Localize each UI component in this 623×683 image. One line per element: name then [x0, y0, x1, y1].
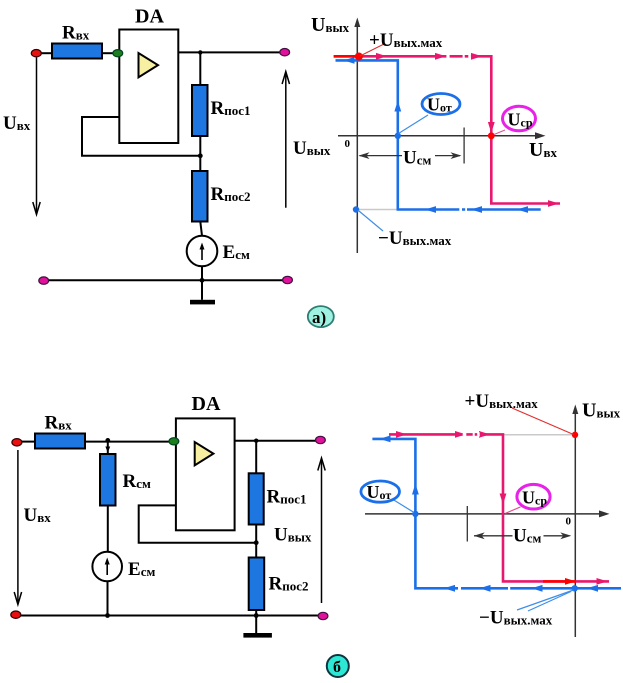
- svg-text:0: 0: [566, 516, 572, 528]
- svg-text:б: б: [333, 659, 341, 676]
- svg-text:DA: DA: [192, 393, 221, 415]
- svg-text:DA: DA: [135, 6, 164, 28]
- svg-text:а): а): [312, 308, 326, 327]
- svg-text:0: 0: [345, 138, 351, 150]
